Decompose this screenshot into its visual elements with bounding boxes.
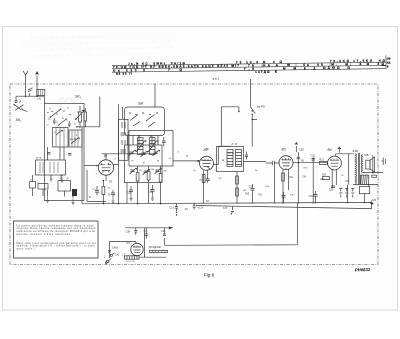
svg-text:¼w: ¼w <box>290 193 294 196</box>
capacitor C2b <box>245 152 248 160</box>
trimmer arrow L3 <box>136 141 146 152</box>
capacitor bank <box>339 189 354 198</box>
coil L7 <box>125 256 140 259</box>
table column ticks <box>126 63 360 69</box>
junction <box>251 119 253 121</box>
wire pickup loop <box>221 107 239 147</box>
table right border <box>385 55 387 68</box>
capacitor C35 <box>329 186 335 191</box>
bleed-through ghost texture <box>22 33 175 58</box>
junction <box>25 95 27 97</box>
junction <box>372 172 374 174</box>
svg-text:L41: L41 <box>37 97 42 100</box>
wire <box>365 184 369 202</box>
svg-text:ГБІ: ГБІ <box>83 110 87 112</box>
tube B2 <box>200 156 214 170</box>
terminal Y <box>104 254 111 262</box>
wire <box>144 228 146 257</box>
output jack <box>382 158 386 166</box>
svg-text:C32: C32 <box>311 154 316 157</box>
svg-text:C26: C26 <box>309 196 314 198</box>
svg-text:14ГДΩ Б: 14ГДΩ Б <box>255 70 278 74</box>
svg-text:C21: C21 <box>161 230 166 233</box>
wire <box>33 147 65 197</box>
capacitor C32 <box>312 157 315 163</box>
svg-text:a b 1: a b 1 <box>213 77 220 81</box>
wire <box>81 127 83 204</box>
capacitor C23 grid B3 <box>266 161 279 165</box>
coil 3a <box>227 150 233 167</box>
resistor R12 <box>236 176 239 184</box>
junction <box>76 126 78 128</box>
capacitor C17 <box>206 177 210 183</box>
junction <box>36 95 38 97</box>
svg-text:S1B: S1B <box>353 149 358 153</box>
supply arrow B4 <box>338 146 341 152</box>
resistor R13 <box>236 188 239 196</box>
earth terminal <box>35 71 39 96</box>
wire antenna bus <box>16 95 44 97</box>
wire B5 left <box>108 242 110 258</box>
svg-text:Б: Б <box>387 65 389 68</box>
coil 4a 4b <box>69 130 82 147</box>
capacitor C39 <box>144 228 148 239</box>
capacitor C19 <box>151 185 155 200</box>
capacitor C13 <box>68 154 71 156</box>
terminal bottom <box>105 262 107 264</box>
tube B4 <box>328 156 342 170</box>
wire <box>84 165 98 167</box>
junction <box>298 162 300 164</box>
primary winding <box>355 153 356 183</box>
svg-text:+C14: +C14 <box>198 206 204 209</box>
capacitor C2 <box>68 121 71 127</box>
svg-text:ΩБ: ΩБ <box>387 57 391 60</box>
svg-text:64 30 7І: 64 30 7І <box>116 72 132 76</box>
capacitor A1 <box>28 88 34 97</box>
svg-text:C13: C13 <box>170 206 175 209</box>
resistor R1 <box>79 112 82 122</box>
wire audio takeoff <box>165 238 298 245</box>
resistor R3 <box>38 184 48 190</box>
capacitor C15 <box>129 186 133 201</box>
junction <box>103 203 105 205</box>
junction <box>160 203 162 205</box>
capacitor C1 <box>53 118 56 124</box>
svg-text:C15: C15 <box>127 193 132 195</box>
svg-text:C33: C33 <box>345 181 350 183</box>
main ground bus <box>82 202 372 203</box>
capacitor C14 <box>185 204 204 212</box>
resistor R6 <box>136 173 139 182</box>
wire <box>347 184 349 202</box>
wire plate line B1 <box>102 153 155 155</box>
wire <box>48 175 74 198</box>
junction <box>347 202 349 204</box>
capacitor C13a <box>170 204 179 216</box>
capacitor C3 electrolytic <box>72 189 77 196</box>
coil box lower <box>36 160 66 175</box>
table rule 1 <box>112 62 386 66</box>
svg-text:K K: K K <box>232 142 239 146</box>
svg-text:C41: C41 <box>115 253 120 256</box>
wire <box>43 96 45 103</box>
wire <box>87 170 106 204</box>
svg-text:B5: B5 <box>127 241 131 245</box>
resistor R9 <box>202 175 205 183</box>
tick marks <box>48 107 76 124</box>
wire <box>251 115 253 147</box>
junction <box>137 203 139 205</box>
svg-text:C19: C19 <box>148 192 153 194</box>
resistor R14 <box>282 173 285 181</box>
capacitor C21 <box>161 228 166 236</box>
capacitor C12 <box>47 153 50 155</box>
coil 1a <box>53 128 69 148</box>
wire <box>59 147 61 160</box>
junction blob C36 <box>370 201 373 204</box>
wire plate B4 <box>336 154 354 156</box>
wire <box>274 165 276 203</box>
svg-text:B4: B4 <box>328 148 332 152</box>
IF section boxes <box>129 131 173 167</box>
svg-text:Та 7а 7Ь: Та 7а 7Ь <box>126 261 135 263</box>
switch Sa PU <box>251 79 256 115</box>
ground <box>46 197 49 203</box>
table rule 3 <box>112 69 386 73</box>
wire <box>126 183 128 204</box>
svg-text:CЇБ: CЇБ <box>163 170 167 173</box>
svg-text:ЇД ГБ: ЇД ГБ <box>36 157 42 160</box>
capacitor C37 <box>372 175 377 177</box>
junction <box>103 180 105 182</box>
transformer core <box>358 153 359 185</box>
trimmer arrow L4 <box>148 141 158 152</box>
ground <box>60 177 63 183</box>
resistor R4 <box>58 181 71 192</box>
wire <box>128 136 159 146</box>
wire <box>312 159 314 204</box>
ghost coil marks <box>59 98 72 102</box>
junction <box>364 202 366 204</box>
resistor R5 <box>149 247 168 253</box>
connector <box>15 100 17 102</box>
antenna terminal <box>23 71 28 96</box>
tube B3 <box>279 156 293 170</box>
IF transformer can 1 <box>217 147 244 172</box>
wire <box>139 256 166 258</box>
svg-text:PH0832: PH0832 <box>355 267 371 273</box>
resistor R30 <box>83 108 87 127</box>
svg-text:C17: C17 <box>223 207 228 210</box>
switch contact dots <box>47 110 78 115</box>
wire <box>105 154 107 160</box>
wire <box>372 155 374 172</box>
capacitor C17b <box>223 206 234 215</box>
capacitor C36 <box>371 200 377 202</box>
trimmer C48 <box>141 151 148 157</box>
svg-text:3a 3b: 3a 3b <box>228 153 235 155</box>
note text box <box>14 221 99 258</box>
svg-text:SK₁: SK₁ <box>16 118 23 122</box>
wire <box>236 172 238 204</box>
wire screen B4 <box>348 154 350 185</box>
svg-text:R5 БДКΩІЕ: R5 БДКΩІЕ <box>149 247 161 249</box>
wire stub <box>252 119 257 121</box>
svg-text:ЇІС: ЇІС <box>50 178 53 181</box>
switch SK1 <box>14 101 28 112</box>
svg-text:+C36: +C36 <box>371 200 377 202</box>
wire B1 cathode <box>103 175 106 186</box>
svg-text:C30: C30 <box>299 147 305 151</box>
speaker coil <box>360 175 368 184</box>
svg-text:7,8: 7,8 <box>244 67 254 71</box>
resistor network box <box>359 187 369 194</box>
wire <box>122 107 124 119</box>
svg-text:B3: B3 <box>282 148 286 152</box>
capacitor C26 <box>314 191 318 204</box>
wire <box>154 84 156 107</box>
svg-text:R21: R21 <box>320 159 325 162</box>
resistor R2 <box>30 182 36 189</box>
trimmer C50 <box>130 168 137 174</box>
resistor R21 <box>320 159 328 165</box>
trimmer C47 <box>129 150 136 156</box>
chassis dashed border <box>10 84 378 265</box>
resistor R22 <box>322 174 330 180</box>
secondary winding <box>361 155 362 173</box>
junction <box>238 111 240 113</box>
wire <box>244 161 267 163</box>
resistor R8 <box>159 174 162 183</box>
antenna coil can <box>44 104 84 201</box>
B5 section top line <box>125 227 172 229</box>
wire to SK1 <box>15 96 17 100</box>
switch contacts <box>129 112 157 127</box>
wire B1 plate <box>114 164 119 166</box>
trimmer C49 <box>153 150 160 156</box>
wire <box>118 104 120 204</box>
svg-text:R17: R17 <box>322 174 327 177</box>
junction <box>96 165 98 167</box>
wire avc line <box>77 97 100 127</box>
svg-text:SK₂: SK₂ <box>75 95 82 99</box>
junction <box>197 160 199 162</box>
resistor R7 <box>147 172 150 181</box>
speaker <box>366 157 375 172</box>
terminal Y2 <box>110 253 114 257</box>
wire screen B3 <box>293 152 328 204</box>
coil bar <box>138 138 144 155</box>
svg-text:R10: R10 <box>245 193 250 195</box>
wire B2 cathode <box>204 170 208 203</box>
svg-text:avez note !: avez note ! <box>17 248 35 251</box>
switch SK2 arm b <box>75 110 84 120</box>
wire B3 cathode <box>283 169 289 203</box>
switch box Sa1 <box>125 107 165 136</box>
tube B5 <box>131 243 143 255</box>
wire <box>79 106 81 128</box>
coil S1 input <box>37 89 45 100</box>
capacitor C31 <box>297 157 305 162</box>
table rule 2 <box>112 65 386 69</box>
oscillator coil box <box>125 145 163 183</box>
wire <box>363 172 383 174</box>
trimmer C51 <box>143 169 150 175</box>
ground <box>71 199 74 205</box>
capacitor C4 <box>162 137 166 147</box>
tube voltage table <box>112 55 386 72</box>
svg-text:C40a: C40a <box>112 246 118 249</box>
capacitor C8 <box>93 186 100 195</box>
wire grid B2 <box>173 160 200 162</box>
wire <box>138 166 161 204</box>
capacitor C40a <box>108 246 118 252</box>
tube B1 <box>98 160 113 175</box>
svg-text:БД: БД <box>387 61 391 64</box>
resistor R5 cathode <box>102 187 105 195</box>
svg-text:gauche chassis d'être identiqu: gauche chassis d'être identique. <box>17 233 72 236</box>
svg-text:Fig 6: Fig 6 <box>204 273 215 278</box>
coil 3b <box>236 150 242 167</box>
svg-text:C35: C35 <box>329 189 334 191</box>
junction <box>118 203 120 205</box>
capacitor C20 <box>249 184 255 204</box>
coil bar <box>150 138 156 155</box>
switch SK2 arm a <box>50 109 62 118</box>
capacitor C38 <box>126 228 138 235</box>
wire plate B2 <box>213 146 231 164</box>
supply arrow C30 <box>295 142 305 152</box>
trimmer <box>56 130 62 135</box>
svg-text:S2B: S2B <box>364 154 369 157</box>
wire B5 top <box>109 242 136 244</box>
svg-text:Sa PU: Sa PU <box>257 105 267 109</box>
wire long vertical to bottom <box>296 202 298 244</box>
trimmer C52 <box>155 168 162 174</box>
padder box <box>119 119 129 160</box>
capacitor C16 <box>111 190 115 203</box>
lower bus <box>196 204 372 209</box>
svg-text:C34: C34 <box>302 176 307 178</box>
svg-text:C20: C20 <box>249 187 254 189</box>
svg-text:C38: C38 <box>126 231 131 234</box>
wire B4 cathode <box>332 170 336 188</box>
capacitor C2d <box>282 192 286 204</box>
wire <box>353 183 378 185</box>
trimmer arrow <box>71 138 79 144</box>
switch SK2 arm c <box>58 119 67 126</box>
